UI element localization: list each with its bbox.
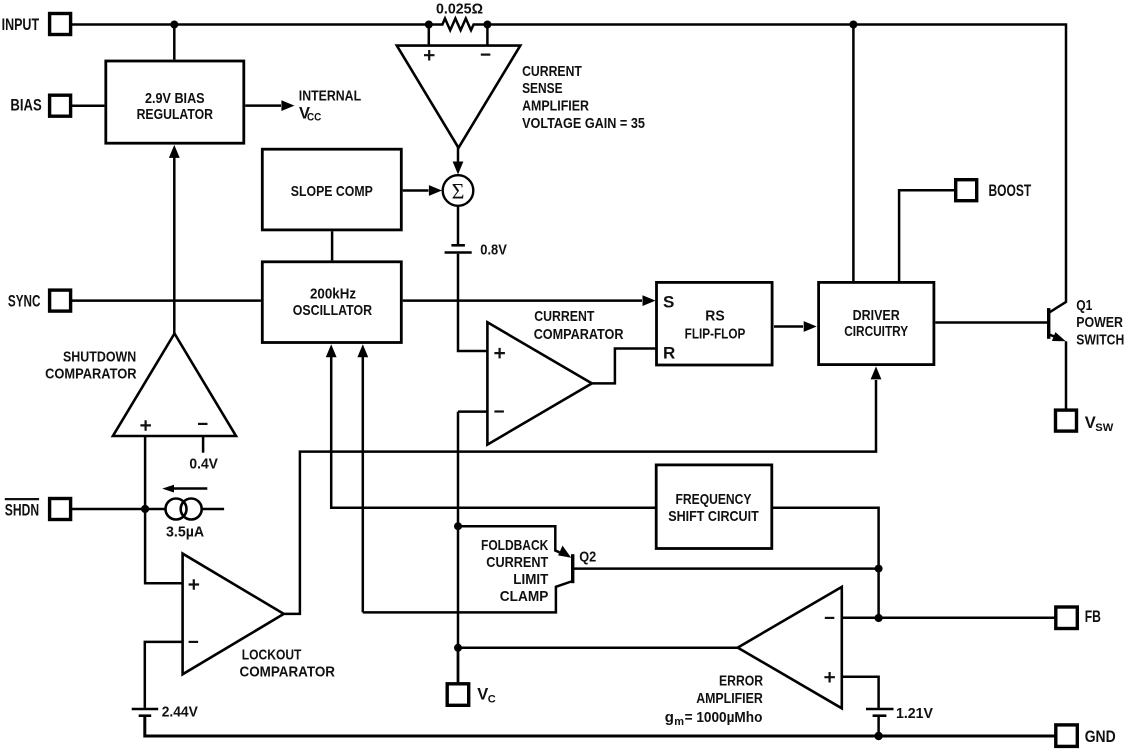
svg-text:V: V bbox=[1085, 414, 1096, 432]
svg-text:ERROR: ERROR bbox=[719, 673, 763, 690]
svg-text:BOOST: BOOST bbox=[989, 182, 1032, 200]
svg-text:1.21V: 1.21V bbox=[896, 705, 933, 722]
svg-text:m: m bbox=[674, 716, 684, 728]
svg-text:CURRENT: CURRENT bbox=[486, 554, 548, 571]
svg-text:INPUT: INPUT bbox=[2, 16, 40, 34]
svg-text:OSCILLATOR: OSCILLATOR bbox=[293, 302, 372, 319]
svg-text:SHIFT CIRCUIT: SHIFT CIRCUIT bbox=[668, 508, 759, 525]
svg-text:0.025Ω: 0.025Ω bbox=[436, 0, 483, 17]
svg-text:CURRENT: CURRENT bbox=[522, 63, 582, 80]
svg-text:DRIVER: DRIVER bbox=[853, 307, 900, 324]
svg-text:R: R bbox=[663, 343, 675, 362]
svg-text:AMPLIFIER: AMPLIFIER bbox=[696, 690, 763, 707]
svg-text:LOCKOUT: LOCKOUT bbox=[242, 647, 302, 664]
svg-text:g: g bbox=[665, 709, 674, 726]
svg-text:FB: FB bbox=[1085, 608, 1101, 626]
svg-text:V: V bbox=[477, 685, 488, 703]
svg-text:FOLDBACK: FOLDBACK bbox=[481, 537, 548, 554]
svg-text:SENSE: SENSE bbox=[522, 80, 563, 97]
svg-text:S: S bbox=[663, 293, 674, 312]
svg-text:VOLTAGE GAIN = 35: VOLTAGE GAIN = 35 bbox=[522, 115, 645, 132]
svg-text:CURRENT: CURRENT bbox=[534, 308, 594, 325]
svg-text:SHDN: SHDN bbox=[5, 500, 39, 519]
svg-text:SLOPE COMP: SLOPE COMP bbox=[291, 183, 373, 200]
svg-text:3.5µA: 3.5µA bbox=[166, 524, 204, 541]
svg-text:= 1000µMho: = 1000µMho bbox=[685, 709, 763, 726]
svg-text:200kHz: 200kHz bbox=[310, 286, 356, 303]
svg-text:2.9V BIAS: 2.9V BIAS bbox=[145, 90, 205, 107]
svg-text:Q2: Q2 bbox=[579, 549, 596, 566]
svg-text:2.44V: 2.44V bbox=[162, 703, 198, 720]
svg-text:FLIP-FLOP: FLIP-FLOP bbox=[685, 326, 746, 343]
svg-text:Q1: Q1 bbox=[1076, 297, 1092, 314]
svg-text:0.8V: 0.8V bbox=[480, 241, 507, 258]
svg-text:C: C bbox=[488, 693, 496, 705]
svg-text:AMPLIFIER: AMPLIFIER bbox=[522, 97, 589, 114]
svg-text:Σ: Σ bbox=[452, 178, 465, 203]
svg-text:SWITCH: SWITCH bbox=[1076, 331, 1124, 348]
svg-text:COMPARATOR: COMPARATOR bbox=[45, 366, 137, 383]
svg-text:0.4V: 0.4V bbox=[189, 456, 218, 473]
svg-text:FREQUENCY: FREQUENCY bbox=[676, 491, 752, 508]
svg-text:GND: GND bbox=[1085, 728, 1116, 746]
svg-text:INTERNAL: INTERNAL bbox=[299, 87, 361, 104]
svg-text:CLAMP: CLAMP bbox=[500, 588, 549, 605]
svg-text:CIRCUITRY: CIRCUITRY bbox=[844, 323, 908, 340]
svg-text:RS: RS bbox=[705, 308, 724, 325]
svg-text:SYNC: SYNC bbox=[8, 293, 41, 311]
svg-text:SW: SW bbox=[1095, 422, 1114, 434]
svg-text:COMPARATOR: COMPARATOR bbox=[534, 326, 624, 343]
svg-text:BIAS: BIAS bbox=[10, 97, 41, 115]
svg-text:REGULATOR: REGULATOR bbox=[137, 106, 214, 123]
svg-text:CC: CC bbox=[307, 111, 321, 123]
svg-text:POWER: POWER bbox=[1076, 314, 1123, 331]
svg-text:SHUTDOWN: SHUTDOWN bbox=[63, 348, 136, 365]
svg-text:LIMIT: LIMIT bbox=[513, 571, 548, 588]
svg-text:COMPARATOR: COMPARATOR bbox=[240, 663, 336, 680]
